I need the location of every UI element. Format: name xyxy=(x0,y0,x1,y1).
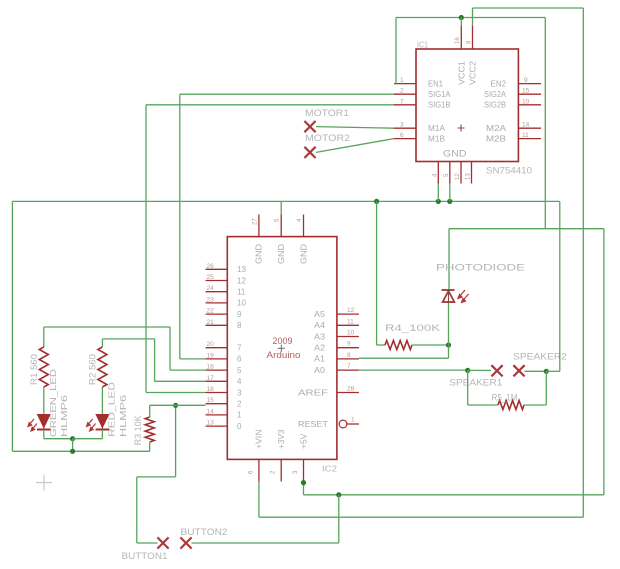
IC2 RESET pin stub 1 xyxy=(347,423,359,425)
wire SIG1A to pin19 xyxy=(180,358,206,360)
svg-text:9: 9 xyxy=(524,77,528,84)
wire right rail x604 xyxy=(603,229,605,495)
svg-text:14: 14 xyxy=(207,408,215,415)
svg-text:12: 12 xyxy=(455,173,461,180)
IC1 pin number 15 xyxy=(522,88,530,95)
svg-text:BUTTON2: BUTTON2 xyxy=(181,527,228,538)
wire SIG1B vertical xyxy=(145,105,147,393)
IC2 pin name GND 2 xyxy=(277,244,286,264)
wire LED1 to pin18 xyxy=(170,369,206,371)
svg-text:IC2: IC2 xyxy=(322,465,338,474)
svg-text:1: 1 xyxy=(351,417,355,424)
wire MOTOR1 to M1A xyxy=(316,127,394,129)
IC2 pin name 7 xyxy=(237,344,242,353)
wire SPEAKER2 lead xyxy=(525,370,547,372)
label PHOTODIODE xyxy=(436,263,525,274)
IC1 pin number 7 xyxy=(400,98,404,105)
IC2 pin name 0 xyxy=(237,422,242,431)
IC2 left pin stubs 26-21 xyxy=(206,269,228,325)
wire VCC top horizontal xyxy=(396,17,545,19)
wire R2 top lead xyxy=(101,339,103,347)
label MOTOR1 xyxy=(305,108,349,119)
svg-text:PHOTODIODE: PHOTODIODE xyxy=(436,263,525,274)
svg-text:23: 23 xyxy=(207,296,215,303)
svg-text:SPEAKER1: SPEAKER1 xyxy=(449,378,502,389)
IC1 value label SN754410 xyxy=(486,166,532,176)
svg-text:SIG2A: SIG2A xyxy=(484,90,507,99)
wire R2 to LED2 xyxy=(101,387,103,415)
IC2 pin name 1 xyxy=(237,411,242,420)
IC2 pin number 28 xyxy=(347,386,355,393)
junction GND bottom xyxy=(70,449,75,454)
svg-text:HLMP6: HLMP6 xyxy=(118,395,128,437)
junction SPEAKER1 xyxy=(465,368,470,373)
label SPEAKER2 xyxy=(513,352,567,363)
junction D2-R3-BUTTON1 xyxy=(173,403,178,408)
IC2 pin number 17 xyxy=(207,375,215,382)
wire BUTTON1 left vertical xyxy=(136,477,138,543)
label GREEN_LED xyxy=(48,369,58,437)
wire VCC1 pin up xyxy=(460,18,462,27)
IC1 pin name SIG2B xyxy=(484,101,506,110)
svg-text:26: 26 xyxy=(207,263,215,270)
svg-text:MOTOR2: MOTOR2 xyxy=(305,133,350,144)
svg-text:6: 6 xyxy=(237,355,242,364)
IC2 pin number 15 xyxy=(207,397,215,404)
IC2 pin number 5 top xyxy=(275,218,281,222)
IC U2 Arduino 2009 body xyxy=(227,237,337,460)
IC2 top pin stubs 27,5,4 xyxy=(259,215,304,237)
IC2 right pin stubs 12-7 xyxy=(337,314,359,370)
IC1 pin name EN2 xyxy=(491,79,507,88)
IC2 pin number 12 xyxy=(347,307,355,314)
label BUTTON2 xyxy=(181,527,228,538)
svg-text:A3: A3 xyxy=(314,332,326,341)
svg-text:11: 11 xyxy=(237,288,246,297)
wire VCC right drop xyxy=(544,18,546,229)
IC1 pin name M2B xyxy=(486,134,506,143)
svg-text:M1B: M1B xyxy=(428,134,445,143)
IC1 top pin stub 16 VCC1 xyxy=(460,26,462,49)
wire SIG1A vertical xyxy=(179,94,181,359)
svg-text:24: 24 xyxy=(207,285,215,292)
resistor R5 1M xyxy=(498,401,524,410)
IC2 bottom pin stubs 6,2,3 xyxy=(259,459,304,481)
label R4_100K xyxy=(385,323,440,333)
IC2 pin number 4 top xyxy=(297,218,303,222)
svg-text:A2: A2 xyxy=(314,344,326,353)
wire A1 horizontal xyxy=(359,357,449,359)
IC1 pin name EN1 xyxy=(428,79,444,88)
IC2 name label xyxy=(322,465,338,474)
wire LED1 step down xyxy=(169,327,171,370)
svg-text:10: 10 xyxy=(347,330,355,337)
svg-text:5: 5 xyxy=(237,366,242,375)
wire BUTTON1 riser to D2 xyxy=(175,405,177,477)
IC2 pin name 6 xyxy=(237,355,242,364)
IC2 left pin stubs 20-13 xyxy=(206,348,228,426)
IC2 pin number 25 xyxy=(207,274,215,281)
svg-text:12: 12 xyxy=(347,307,355,314)
wire photodiode cathode drop xyxy=(448,229,450,290)
IC2 pin number 7 xyxy=(347,363,351,370)
junction VCC1 xyxy=(459,15,464,20)
wire BUTTON2 drop xyxy=(338,495,340,543)
IC2 pin name 12 xyxy=(237,276,246,285)
IC U1 SN754410 body xyxy=(416,49,518,162)
wire LED junction drop xyxy=(72,439,74,452)
svg-text:6: 6 xyxy=(400,132,404,139)
IC2 pin name A2 xyxy=(314,344,326,353)
svg-text:+5V: +5V xyxy=(299,433,308,449)
svg-text:GND: GND xyxy=(443,149,467,160)
svg-text:19: 19 xyxy=(207,352,215,359)
svg-text:SN754410: SN754410 xyxy=(486,166,532,176)
svg-text:A5: A5 xyxy=(314,310,326,319)
wire R4 right lead xyxy=(412,344,449,346)
wire SIG1A horizontal xyxy=(180,93,394,95)
svg-text:M2B: M2B xyxy=(486,134,506,143)
svg-text:VCC2: VCC2 xyxy=(469,60,478,85)
IC2 pin number 22 xyxy=(207,308,215,315)
IC1 name label xyxy=(417,41,428,50)
svg-text:7: 7 xyxy=(347,363,351,370)
IC1 top pin stub 8 VCC2 xyxy=(472,26,474,49)
IC1 pin number 13 xyxy=(466,173,472,180)
svg-text:13: 13 xyxy=(237,265,246,274)
IC1 pin number 16 xyxy=(455,37,461,44)
IC2 pin name A5 xyxy=(314,310,326,319)
svg-text:A0: A0 xyxy=(314,366,326,375)
svg-text:SPEAKER2: SPEAKER2 xyxy=(513,352,567,363)
IC2 pin name RESET xyxy=(298,420,328,429)
IC2 pin number 20 xyxy=(207,341,215,348)
svg-text:17: 17 xyxy=(207,375,215,382)
wire R1 to LED1 xyxy=(43,387,45,415)
junction GND pin4 xyxy=(436,199,441,204)
speaker SPEAKER2 contact xyxy=(513,365,524,376)
wire +VIN pin drop xyxy=(258,481,260,517)
origin cross of BUTTON1 part xyxy=(36,475,52,491)
svg-text:R4_100K: R4_100K xyxy=(385,323,440,333)
label R2 560 xyxy=(88,354,98,385)
svg-text:18: 18 xyxy=(207,364,215,371)
IC2 pin number 26 xyxy=(207,263,215,270)
IC2 pin number 24 xyxy=(207,285,215,292)
wire +5V horizontal xyxy=(304,494,604,496)
svg-text:11: 11 xyxy=(347,318,354,325)
wire IC2 GND top pin5 xyxy=(280,201,282,214)
svg-text:R5_1M: R5_1M xyxy=(492,393,518,403)
junction +5V button2 xyxy=(336,492,341,497)
IC2 pin name 3 xyxy=(237,388,242,397)
IC1 pin number 1 xyxy=(400,77,404,84)
wire R4 vertical xyxy=(376,201,378,345)
label HLMP6 red xyxy=(118,395,128,437)
svg-text:16: 16 xyxy=(455,37,461,44)
IC2 pin name 10 xyxy=(237,299,246,308)
svg-text:9: 9 xyxy=(347,341,351,348)
svg-text:AREF: AREF xyxy=(298,388,328,397)
IC2 RESET pin circle xyxy=(339,420,347,428)
svg-text:21: 21 xyxy=(207,319,215,326)
wire SIG1B to pin16 xyxy=(146,392,206,394)
svg-text:22: 22 xyxy=(207,308,215,315)
svg-text:25: 25 xyxy=(207,274,215,281)
IC2 AREF pin stub 28 xyxy=(337,392,359,394)
svg-text:R3 10K: R3 10K xyxy=(133,415,143,445)
IC2 pin name GND 1 xyxy=(255,244,264,264)
IC2 pin number 21 xyxy=(207,319,215,326)
resistor R3 10K xyxy=(145,417,154,442)
wire LED2 step down xyxy=(154,339,156,381)
wire GND bus left rail xyxy=(11,201,13,451)
svg-text:+3V3: +3V3 xyxy=(277,429,286,449)
IC1 pin name GND xyxy=(443,149,467,160)
svg-text:EN2: EN2 xyxy=(491,79,507,88)
IC2 pin name A3 xyxy=(314,332,326,341)
svg-text:7: 7 xyxy=(237,344,242,353)
IC1 pin number 2 xyxy=(400,88,404,95)
svg-text:13: 13 xyxy=(466,173,472,180)
motor MOTOR2 contact xyxy=(304,147,315,158)
wire R1 top lead xyxy=(43,327,45,347)
IC2 pin number 2 bottom xyxy=(271,470,277,474)
svg-text:15: 15 xyxy=(522,88,530,95)
IC2 value 2009 xyxy=(273,336,293,347)
label R1 560 xyxy=(29,354,39,385)
svg-text:2: 2 xyxy=(237,400,242,409)
svg-text:3: 3 xyxy=(237,388,242,397)
IC2 pin name 13 xyxy=(237,265,246,274)
label RED_LED xyxy=(107,382,117,437)
wire R3 bottom lead xyxy=(149,442,151,451)
wire SPEAKER1 lead xyxy=(468,369,491,371)
wire LED2 bottom lead xyxy=(101,430,103,439)
IC2 pin name AREF xyxy=(298,388,328,397)
wire +VIN horizontal xyxy=(259,516,583,518)
svg-text:GND: GND xyxy=(255,244,264,264)
svg-text:GND: GND xyxy=(299,244,308,264)
junction SPEAKER2 xyxy=(544,369,549,374)
speaker SPEAKER1 contact xyxy=(491,365,502,376)
IC1 pin number 12 xyxy=(455,173,461,180)
junction GND pin5 xyxy=(447,199,452,204)
wire R5 left lead xyxy=(468,404,498,406)
wire GND bottom horizontal xyxy=(12,450,149,452)
IC1 pin number 5 xyxy=(444,173,450,177)
wire R3 top lead xyxy=(149,405,151,417)
svg-text:+VIN: +VIN xyxy=(255,429,264,449)
IC2 pin name +3V3 xyxy=(277,429,286,449)
wire A0 to SPEAKER1 xyxy=(359,369,468,371)
IC2 pin name A0 xyxy=(314,366,326,375)
wire GND bus horizontal xyxy=(12,200,559,202)
label HLMP6 green xyxy=(59,395,69,437)
label SPEAKER1 xyxy=(449,378,502,389)
IC1 pin number 4 xyxy=(433,173,439,177)
svg-text:0: 0 xyxy=(237,422,242,431)
LED2 emission arrows xyxy=(87,419,96,431)
IC2 pin number 3 bottom xyxy=(293,470,299,474)
IC2 value Arduino xyxy=(267,350,301,361)
svg-text:RED_LED: RED_LED xyxy=(107,382,117,437)
svg-text:28: 28 xyxy=(347,386,355,393)
svg-text:12: 12 xyxy=(237,276,246,285)
svg-text:IC1: IC1 xyxy=(417,41,428,50)
svg-text:9: 9 xyxy=(237,310,242,319)
IC1 pin name M1B xyxy=(428,134,445,143)
IC1 pin name SIG1B xyxy=(428,101,451,110)
wire EN1 riser xyxy=(395,18,397,84)
wire BUTTON1 upper horizontal xyxy=(137,476,176,478)
IC1 pin number 14 xyxy=(522,122,530,129)
wire +5V pin drop xyxy=(303,481,305,494)
wire R5 right lead xyxy=(524,404,546,406)
IC2 pin number 9 xyxy=(347,341,351,348)
resistor R1 560 xyxy=(39,347,48,387)
IC2 pin name 11 xyxy=(237,288,246,297)
svg-text:A1: A1 xyxy=(314,355,326,364)
wire LED1 bottom lead xyxy=(43,430,45,439)
wire R5 left drop xyxy=(467,370,469,405)
svg-text:GND: GND xyxy=(277,244,286,264)
wire GND right rail xyxy=(559,201,561,371)
wire VCC2 top horizontal xyxy=(473,7,584,9)
svg-text:10: 10 xyxy=(237,299,246,308)
svg-text:14: 14 xyxy=(522,122,530,129)
junction R4 top xyxy=(374,199,379,204)
IC2 pin name GND 3 xyxy=(299,244,308,264)
svg-text:HLMP6: HLMP6 xyxy=(59,395,69,437)
svg-text:RESET: RESET xyxy=(298,420,328,429)
LED1 GREEN_LED symbol xyxy=(37,415,51,430)
wire SIG1B horizontal xyxy=(146,104,394,106)
svg-text:8: 8 xyxy=(347,352,351,359)
IC2 pin number 11 xyxy=(347,318,354,325)
IC2 pin name +5V xyxy=(299,433,308,449)
svg-text:VCC1: VCC1 xyxy=(458,60,467,85)
resistor R2 560 xyxy=(98,347,107,387)
label BUTTON1 xyxy=(122,551,168,562)
IC1 pin name M1A xyxy=(428,124,446,133)
IC2 pin number 14 xyxy=(207,408,215,415)
svg-text:2: 2 xyxy=(400,88,404,95)
wire SPEAKER2 to GND rail xyxy=(546,370,560,372)
label MOTOR2 xyxy=(305,133,350,144)
svg-text:R1 560: R1 560 xyxy=(29,354,39,385)
svg-text:EN1: EN1 xyxy=(428,79,444,88)
IC2 pin number 23 xyxy=(207,296,215,303)
IC1 pin name M2A xyxy=(486,124,507,133)
button BUTTON2 contact xyxy=(180,537,191,548)
IC1 pin name VCC2 xyxy=(469,60,478,85)
svg-text:SIG1B: SIG1B xyxy=(428,101,451,110)
wire R4 left lead xyxy=(377,344,385,346)
svg-text:8: 8 xyxy=(237,321,242,330)
wire R5 right riser xyxy=(545,371,547,405)
junction LED cathodes xyxy=(70,436,75,441)
junction +5V pin xyxy=(301,480,306,485)
IC2 pin number 13 xyxy=(207,420,215,427)
svg-text:M1A: M1A xyxy=(428,124,446,133)
svg-text:2009: 2009 xyxy=(273,336,293,347)
svg-text:15: 15 xyxy=(207,397,215,404)
IC1 right pin stubs 9,15,10,14,11 xyxy=(518,84,541,139)
IC2 pin name A1 xyxy=(314,355,326,364)
svg-text:SIG1A: SIG1A xyxy=(428,90,451,99)
wire LED2 to pin17 xyxy=(155,380,206,382)
IC2 pin number 6 bottom xyxy=(248,470,254,474)
label R5_1M xyxy=(492,393,518,403)
IC1 origin cross xyxy=(458,125,465,132)
IC2 pin number 1 xyxy=(351,417,355,424)
IC1 pin number 10 xyxy=(522,98,530,105)
IC1 left pin stubs 1,2,7,3,6 xyxy=(394,84,416,139)
IC2 pin number 10 xyxy=(347,330,355,337)
svg-text:3: 3 xyxy=(400,122,404,129)
IC2 pin name +VIN xyxy=(255,429,264,449)
svg-text:11: 11 xyxy=(522,132,529,139)
wire BUTTON1 horizontal xyxy=(137,542,158,544)
IC1 pin name SIG2A xyxy=(484,90,507,99)
svg-text:10: 10 xyxy=(522,98,530,105)
svg-text:20: 20 xyxy=(207,341,215,348)
svg-text:13: 13 xyxy=(207,420,215,427)
IC2 pin name A4 xyxy=(314,321,326,330)
IC2 origin cross xyxy=(278,345,285,352)
wire LED2 top horizontal xyxy=(102,338,154,340)
photodiode D1 xyxy=(442,290,455,302)
wire VCC2 right rail xyxy=(582,8,584,517)
svg-text:GREEN_LED: GREEN_LED xyxy=(48,369,58,437)
IC1 pin number 3 xyxy=(400,122,404,129)
wire IC1 GND pin5 drop xyxy=(449,184,451,202)
svg-text:SIG2B: SIG2B xyxy=(484,101,506,110)
IC1 pin number 9 xyxy=(524,77,528,84)
resistor R4 100K xyxy=(385,341,412,350)
wire LED1 top horizontal xyxy=(44,326,170,328)
svg-text:7: 7 xyxy=(400,98,404,105)
label R3 10K xyxy=(133,415,143,445)
photodiode light arrows xyxy=(458,290,469,303)
IC2 pin number 8 xyxy=(347,352,351,359)
LED1 emission arrows xyxy=(28,419,37,431)
wire LED1 bottom horizontal xyxy=(44,438,73,440)
button BUTTON1 contact xyxy=(157,537,168,548)
svg-text:1: 1 xyxy=(237,411,242,420)
svg-text:16: 16 xyxy=(207,386,215,393)
IC1 pin name VCC1 xyxy=(458,60,467,85)
wire IC1 GND pin4 drop xyxy=(437,184,439,202)
wire D2 horizontal xyxy=(150,404,206,406)
wire VCC2 pin up xyxy=(472,8,474,26)
IC2 pin name 4 xyxy=(237,377,242,386)
IC2 pin name 9 xyxy=(237,310,242,319)
IC1 pin number 11 xyxy=(522,132,529,139)
IC2 pin number 19 xyxy=(207,352,215,359)
wire photodiode top horizontal xyxy=(449,228,604,230)
wire BUTTON2 horizontal xyxy=(192,542,339,544)
svg-text:R2 560: R2 560 xyxy=(88,354,98,385)
svg-text:M2A: M2A xyxy=(486,124,507,133)
IC2 pin number 27 xyxy=(252,218,258,225)
svg-text:4: 4 xyxy=(237,377,242,386)
svg-text:A4: A4 xyxy=(314,321,326,330)
wire LED2 bottom horizontal xyxy=(73,438,103,440)
IC1 pin number 8 xyxy=(467,40,473,44)
IC2 pin name 5 xyxy=(237,366,242,375)
